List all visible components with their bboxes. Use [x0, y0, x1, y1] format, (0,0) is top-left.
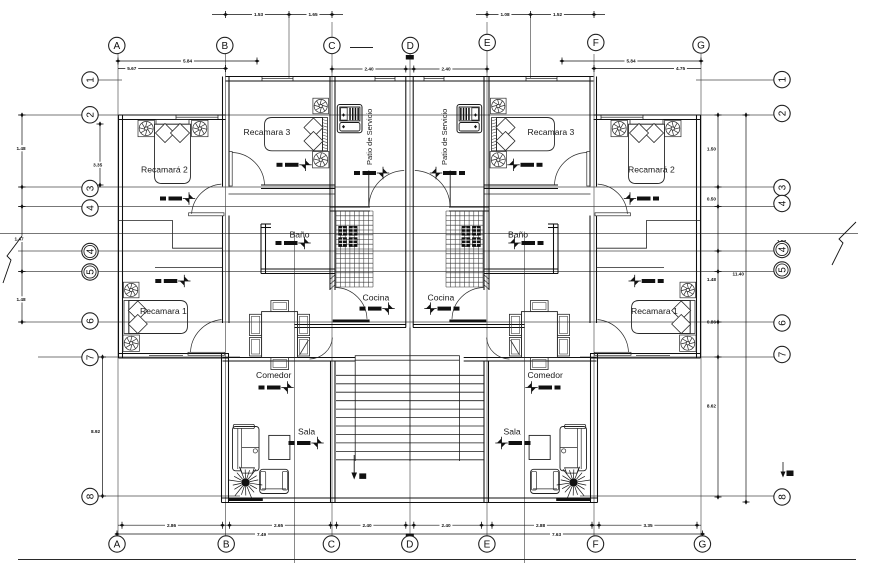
wall cocina south: [295, 324, 407, 326]
svg-text:3: 3: [85, 185, 96, 191]
grid bubble G bottom: [694, 536, 710, 552]
dining table comedor: [262, 312, 298, 358]
svg-text:Sala: Sala: [298, 426, 315, 436]
grid bubble D top: [402, 37, 418, 53]
svg-text:G: G: [699, 539, 707, 550]
svg-text:B: B: [221, 41, 228, 52]
svg-text:1.53: 1.53: [254, 12, 264, 17]
grid bubble E top: [479, 34, 495, 50]
grid bubble 3 right: [774, 179, 790, 195]
bed recamara3: [323, 118, 328, 151]
lavadero patio: [340, 123, 360, 132]
wall B upper segment: [222, 77, 224, 187]
dim top centre 2.40/2.40 L: [332, 68, 487, 70]
svg-text:5.67: 5.67: [127, 66, 137, 71]
wall C upper (patio west): [329, 77, 331, 291]
window patio top: [375, 78, 395, 80]
svg-text:2.40: 2.40: [441, 523, 451, 528]
section mark right: [832, 222, 856, 265]
svg-text:Sala: Sala: [504, 426, 521, 436]
svg-text:G: G: [697, 40, 705, 51]
dim top line 4.75 R: [594, 68, 701, 70]
window recamara3 top: [262, 78, 293, 80]
grid bubble 4 right: [774, 241, 790, 257]
grid bubble C bottom: [323, 536, 339, 552]
svg-text:7: 7: [777, 351, 788, 357]
dim mini top right 1.08/1.52: [476, 14, 605, 16]
level marker patio: [354, 171, 360, 175]
stair landing strip: [355, 356, 459, 361]
level marker recamara3: [277, 163, 283, 167]
grid bubble 5 left: [82, 264, 98, 280]
svg-text:8: 8: [777, 494, 788, 500]
svg-text:1: 1: [777, 76, 788, 82]
wall bano west: [260, 224, 262, 274]
svg-text:Patio de Servicio: Patio de Servicio: [365, 109, 374, 165]
svg-text:0.86: 0.86: [707, 320, 717, 325]
svg-text:6: 6: [777, 320, 788, 326]
grid bubble C top: [324, 37, 340, 53]
armchair sala: [260, 469, 289, 493]
dim top line 5.84 R: [562, 60, 701, 62]
level marker recamara2: [160, 197, 166, 201]
svg-text:2.86: 2.86: [167, 523, 177, 528]
section mark left: [3, 236, 22, 283]
chair comedor E2: [298, 337, 310, 356]
svg-text:7: 7: [85, 354, 96, 360]
wall B lower segment (sala west): [221, 354, 223, 503]
svg-text:Comedor: Comedor: [528, 370, 563, 380]
svg-text:D: D: [406, 539, 413, 550]
svg-text:4: 4: [85, 205, 96, 211]
svg-text:Cocina: Cocina: [363, 292, 390, 302]
grid row 4: [18, 206, 774, 208]
entry door leaf+arc: [300, 340, 309, 355]
dim right total 11.40: [745, 115, 747, 502]
grid bubble 5 right: [774, 262, 790, 278]
svg-text:2.40: 2.40: [441, 67, 451, 72]
grid bubble 1 left: [82, 72, 98, 88]
party wall witness top: [406, 55, 414, 60]
grid bubble 4 left: [82, 243, 98, 259]
wall top outer (A-B): [119, 114, 226, 116]
svg-text:E: E: [484, 539, 491, 550]
svg-text:Recamará 2: Recamará 2: [141, 165, 188, 175]
grid bubble 6 right: [774, 315, 790, 331]
window recamara1 bottom: [149, 355, 183, 357]
svg-text:6: 6: [85, 318, 96, 324]
svg-text:C: C: [328, 41, 335, 52]
svg-text:Recamara 3: Recamara 3: [244, 127, 291, 137]
chair comedor S: [271, 358, 289, 370]
grid bubble 7 right: [774, 346, 790, 362]
grid bubble F bottom: [587, 536, 603, 552]
svg-text:A: A: [114, 539, 121, 550]
grid line G: [700, 54, 702, 536]
sofa sala: [233, 424, 254, 428]
door recamara1: [188, 352, 225, 355]
side table sala: [269, 435, 290, 459]
window recamara2 top: [176, 116, 218, 118]
grid bubble 8 right: [774, 489, 790, 505]
svg-text:1: 1: [85, 77, 96, 83]
stair centre line: [409, 328, 411, 462]
dim mini top left 1.53/1.65: [212, 14, 343, 16]
wall bottom (sala): [222, 497, 411, 499]
level marker bano: [276, 241, 282, 245]
svg-text:8.62: 8.62: [707, 404, 717, 409]
grid bubble 7 left: [82, 349, 98, 365]
fan recamara3 bottom: [313, 152, 329, 168]
stove/drain tiles: [338, 226, 347, 236]
grid row 3: [18, 186, 774, 188]
fan recamara3 top: [313, 98, 329, 114]
wall bottom outer (A-B): [119, 353, 230, 355]
svg-text:2: 2: [777, 110, 788, 116]
svg-text:1.52: 1.52: [553, 12, 563, 17]
wall recamara3 south: [261, 184, 335, 186]
svg-text:A: A: [113, 41, 120, 52]
dim top line 5.84 L: [118, 60, 257, 62]
witness line x289: [288, 15, 290, 79]
svg-text:Recamara 1: Recamara 1: [140, 306, 187, 316]
svg-text:2.65: 2.65: [274, 523, 284, 528]
grid bubble B top: [217, 37, 233, 53]
svg-text:1.48: 1.48: [707, 277, 717, 282]
dim left inner 3.35: [99, 124, 101, 185]
witness line x530: [530, 15, 532, 79]
wall outer west (A): [118, 115, 120, 358]
grid bubble F top: [588, 34, 604, 50]
svg-text:3.35: 3.35: [643, 523, 653, 528]
party wall (D): [405, 77, 407, 328]
grid row 2: [18, 114, 774, 116]
grid row 1: [98, 79, 122, 81]
grid row 5: [18, 271, 774, 273]
washer patio: [337, 105, 362, 133]
grid row 6: [18, 321, 774, 323]
fan recamara2 R: [192, 120, 208, 136]
level marker recamara1: [155, 279, 161, 283]
svg-text:2.40: 2.40: [362, 523, 372, 528]
level marker sala: [289, 441, 295, 445]
svg-text:4: 4: [85, 248, 96, 254]
chair comedor W2: [250, 337, 262, 356]
plant sala: [229, 467, 263, 499]
bed recamara1: [124, 301, 129, 334]
wall patio south: [330, 206, 370, 208]
svg-text:1.08: 1.08: [500, 12, 510, 17]
wall C lower (stair west): [330, 361, 332, 503]
grid line D: [409, 54, 411, 536]
wall top centre (B-D): [226, 76, 410, 78]
wall bano south: [261, 268, 335, 270]
grid line B: [225, 54, 227, 536]
grid bubble 2 right: [774, 105, 790, 121]
witness line x294: [294, 232, 296, 563]
grid bubble 2 left: [82, 107, 98, 123]
svg-text:Patio de Servicio: Patio de Servicio: [440, 109, 449, 165]
svg-text:7.63: 7.63: [552, 532, 562, 537]
bed recamara2: [156, 120, 189, 125]
svg-text:Baño: Baño: [290, 230, 310, 240]
dash next to C: [350, 47, 373, 49]
grid line A: [117, 54, 119, 536]
svg-text:B: B: [223, 539, 230, 550]
grid line E: [486, 22, 488, 536]
grid row 4b: [18, 250, 774, 252]
svg-text:1.65: 1.65: [308, 12, 318, 17]
grid bubble 8 left: [82, 488, 98, 504]
level marker comedor: [259, 386, 265, 390]
svg-text:F: F: [593, 38, 599, 49]
svg-text:Baño: Baño: [508, 230, 528, 240]
grid bubble G top: [693, 37, 709, 53]
svg-text:11.40: 11.40: [733, 272, 745, 277]
svg-text:5: 5: [85, 269, 96, 275]
kitchen tile floor: [336, 211, 373, 287]
stair stringer west: [354, 360, 356, 461]
dim left 8.92: [102, 357, 104, 496]
section line row: [0, 233, 858, 235]
chair comedor N: [271, 301, 289, 312]
grid bubble A bottom: [109, 536, 125, 552]
svg-text:4.75: 4.75: [676, 66, 686, 71]
svg-text:3: 3: [777, 184, 788, 190]
svg-text:5.84: 5.84: [183, 59, 193, 64]
stair stringer east: [458, 360, 460, 461]
grid bubble 4 left: [82, 200, 98, 216]
svg-text:Comedor: Comedor: [256, 370, 291, 380]
grid bubble A top: [109, 37, 125, 53]
svg-text:5.84: 5.84: [626, 59, 636, 64]
svg-text:8.92: 8.92: [91, 429, 101, 434]
door recamara3: [229, 152, 232, 187]
grid line C: [331, 22, 333, 536]
dim bottom total line: [117, 533, 703, 535]
grid row 8: [98, 495, 240, 497]
svg-text:1.48: 1.48: [16, 297, 26, 302]
grid row 7: [38, 356, 240, 358]
svg-text:Recamara 3: Recamara 3: [528, 127, 575, 137]
right unit (mirrored copy of left unit): [409, 77, 701, 503]
svg-text:7.49: 7.49: [257, 532, 267, 537]
svg-text:Cocina: Cocina: [428, 292, 455, 302]
svg-text:F: F: [592, 539, 598, 550]
party wall witness bottom: [406, 534, 414, 539]
svg-text:E: E: [484, 38, 491, 49]
fan recamara1 top: [123, 282, 139, 298]
svg-text:C: C: [328, 539, 335, 550]
svg-text:Recamara 1: Recamara 1: [631, 306, 678, 316]
fan recamara1 bottom: [123, 335, 139, 351]
stair treads: [336, 375, 484, 460]
door patio: [368, 171, 370, 208]
svg-text:8: 8: [85, 493, 96, 499]
wall B middle segment: [222, 216, 224, 324]
grid bubble 3 left: [82, 180, 98, 196]
grid bubble D bottom: [402, 536, 418, 552]
dim left vertical line: [21, 115, 23, 322]
svg-text:2: 2: [85, 112, 96, 118]
sheet base line: [18, 559, 856, 561]
witness line x525: [524, 232, 526, 563]
svg-text:Recamará 2: Recamará 2: [628, 165, 675, 175]
svg-text:3.35: 3.35: [93, 162, 103, 167]
svg-text:4: 4: [777, 200, 788, 206]
grid bubble B bottom: [218, 536, 234, 552]
svg-text:1.48: 1.48: [16, 146, 26, 151]
svg-text:5: 5: [777, 267, 788, 273]
level marker cocina: [360, 307, 366, 311]
hallway line y194: [229, 193, 336, 195]
right margin arrow mark: [782, 462, 784, 475]
stair down arrow: [353, 455, 355, 477]
chair comedor E1: [298, 314, 310, 335]
fan recamara2 L: [138, 120, 154, 136]
svg-text:1.50: 1.50: [707, 147, 717, 152]
grid bubble 4 right: [774, 195, 790, 211]
svg-text:4: 4: [777, 246, 788, 252]
svg-text:0.50: 0.50: [707, 197, 717, 202]
door recamara2: [189, 213, 224, 216]
svg-text:2.40: 2.40: [364, 67, 374, 72]
svg-text:2.88: 2.88: [536, 523, 546, 528]
chair comedor W1: [250, 314, 262, 335]
dim bottom segments line: [118, 524, 701, 526]
dim right inner line: [717, 115, 719, 497]
door cocina: [333, 320, 370, 323]
wall hatch at cocina door: [330, 275, 335, 279]
dim top line 5.67 L: [118, 68, 226, 70]
grid bubble 6 left: [82, 313, 98, 329]
wall comedor south / landing: [223, 357, 356, 359]
grid line F: [593, 54, 595, 536]
grid bubble E bottom: [479, 536, 495, 552]
window sala bottom: [228, 498, 262, 501]
grid bubble 1 right: [774, 71, 790, 87]
closet partition recamara2/1: [119, 221, 223, 249]
svg-text:D: D: [407, 41, 414, 52]
